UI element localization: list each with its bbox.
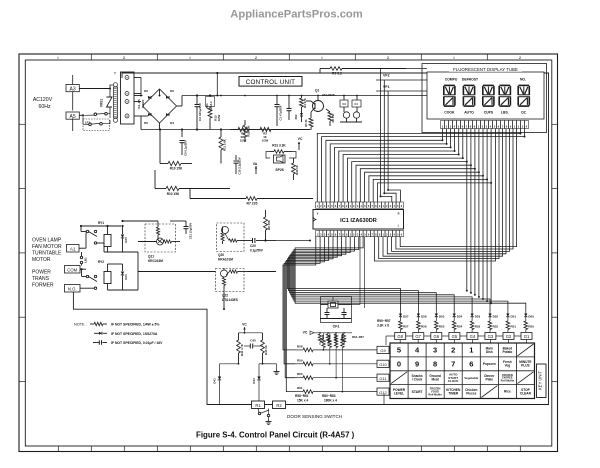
bridge rectifier D2~D5 xyxy=(143,89,177,123)
key matrix connectors G8-G1 xyxy=(395,333,406,340)
svg-text:G9: G9 xyxy=(380,348,386,353)
svg-text:I: I xyxy=(322,56,323,60)
svg-text:3: 3 xyxy=(433,346,437,355)
connector COM xyxy=(65,266,81,274)
resistor R7 220 xyxy=(190,198,246,200)
svg-text:Q22: Q22 xyxy=(222,294,228,298)
svg-text:R82: R82 xyxy=(335,334,338,339)
svg-text:2SA933S: 2SA933S xyxy=(322,93,335,97)
svg-text:I: I xyxy=(454,56,455,60)
zener ZD1 HZ16-1 xyxy=(206,97,215,107)
svg-text:R2: R2 xyxy=(276,403,282,408)
wire bottom rail xyxy=(207,404,252,406)
wire G columns to matrix xyxy=(399,340,401,344)
svg-text:AC120V: AC120V xyxy=(33,97,53,103)
svg-text:IF NOT SPECIFIED, 0.01μF / 16: IF NOT SPECIFIED, 0.01μF / 16V xyxy=(111,341,163,345)
fluorescent display tube box xyxy=(427,72,544,119)
resistor R4 47K xyxy=(301,96,303,99)
svg-text:C1 47μ/25V: C1 47μ/25V xyxy=(279,105,283,120)
wire relay to control xyxy=(138,271,216,273)
resistor R52 xyxy=(489,317,491,321)
svg-text:I: I xyxy=(58,56,59,60)
capacitor C2 330u/35V xyxy=(196,96,198,105)
wire bundle IC top to display far columns xyxy=(317,134,520,203)
wire q21 collector xyxy=(157,221,159,224)
diode D53 xyxy=(471,311,473,314)
svg-text:1/2W: 1/2W xyxy=(240,139,247,143)
wire bundle IC bottom to display long columns xyxy=(374,129,495,262)
svg-text:0: 0 xyxy=(397,359,401,368)
connector R1 xyxy=(252,401,265,409)
svg-text:5: 5 xyxy=(397,346,401,355)
wire A3 to transformer xyxy=(79,88,110,90)
resistor R53 xyxy=(471,317,473,321)
wire vcc rail xyxy=(134,95,143,97)
svg-text:Q20: Q20 xyxy=(218,253,224,257)
svg-text:D3: D3 xyxy=(170,89,174,93)
IC1 bottom pin strip xyxy=(316,231,320,237)
svg-text:R30 1K: R30 1K xyxy=(295,165,299,174)
svg-text:DEFROST: DEFROST xyxy=(462,78,479,82)
svg-text:RY1: RY1 xyxy=(98,221,104,225)
resistors R80-R83 vertical xyxy=(323,333,325,339)
relay RY1 coil xyxy=(104,235,111,247)
svg-text:R54: R54 xyxy=(457,325,463,329)
svg-text:G6: G6 xyxy=(434,334,440,339)
svg-text:60Hz: 60Hz xyxy=(38,104,51,110)
svg-text:FORMER: FORMER xyxy=(32,283,54,289)
svg-text:RY2: RY2 xyxy=(98,260,104,264)
transistor Q1 2SA933S xyxy=(313,101,324,112)
svg-text:D55: D55 xyxy=(439,315,445,319)
wire bundle IC bottom left staircase xyxy=(283,237,316,350)
display pin strip xyxy=(441,121,445,129)
diode D50 xyxy=(525,311,527,314)
key matrix grid xyxy=(390,343,535,399)
svg-text:2: 2 xyxy=(123,56,125,60)
svg-text:D4: D4 xyxy=(170,121,174,125)
resistor R9 5.2 top xyxy=(320,68,330,70)
resistor R2 680 1/2W xyxy=(230,129,238,131)
svg-text:R61: R61 xyxy=(297,386,303,390)
svg-text:11B2F: 11B2F xyxy=(141,99,145,108)
svg-text:I: I xyxy=(190,56,191,60)
svg-text:R5 1K: R5 1K xyxy=(304,119,308,126)
svg-text:D54: D54 xyxy=(457,315,463,319)
diode D51 xyxy=(507,311,509,314)
svg-text:R60: R60 xyxy=(297,372,303,376)
svg-text:8: 8 xyxy=(433,359,437,368)
svg-text:Q21: Q21 xyxy=(148,255,154,259)
svg-text:1: 1 xyxy=(469,346,473,355)
svg-text:TRANS: TRANS xyxy=(32,276,50,282)
svg-text:D40: D40 xyxy=(252,378,256,384)
capacitor C9 0.1u/50V xyxy=(181,130,183,138)
svg-text:ZD2: ZD2 xyxy=(294,114,298,119)
resistor R12 15K xyxy=(244,120,246,125)
capacitor C21 15u/35V xyxy=(185,221,187,226)
svg-text:IF NOT SPECIFIED, 1/4W ± 5%: IF NOT SPECIFIED, 1/4W ± 5% xyxy=(111,323,159,327)
wire psu mid xyxy=(159,130,161,164)
svg-text:C3: C3 xyxy=(342,102,346,106)
svg-text:VRS1: VRS1 xyxy=(100,99,104,108)
ground mid xyxy=(276,364,278,369)
svg-text:VA: VA xyxy=(253,162,258,166)
svg-text:R57: R57 xyxy=(403,325,409,329)
svg-text:/ Clock: / Clock xyxy=(412,378,423,382)
svg-text:1/2W: 1/2W xyxy=(217,114,221,121)
svg-text:D20: D20 xyxy=(124,237,128,243)
svg-text:D50: D50 xyxy=(528,315,534,319)
connector N.O. xyxy=(65,285,81,293)
diode D21 xyxy=(122,264,124,271)
svg-text:R59: R59 xyxy=(297,358,303,362)
svg-text:NOTE :: NOTE : xyxy=(74,323,87,327)
wire vf lines to display xyxy=(376,79,427,81)
sheet zone tick marks top xyxy=(90,54,92,60)
svg-text:Meat: Meat xyxy=(431,378,439,382)
svg-text:Plate: Plate xyxy=(485,378,493,382)
resistor R56 xyxy=(417,317,419,321)
relay RY2 coil xyxy=(104,272,111,284)
svg-text:A3: A3 xyxy=(70,86,76,92)
svg-text:C20: C20 xyxy=(250,244,256,248)
svg-text:C2 330μ/35V: C2 330μ/35V xyxy=(198,103,202,121)
capacitor C10 2.2u/50V xyxy=(235,155,237,160)
svg-text:OVEN LAMP: OVEN LAMP xyxy=(32,238,62,244)
diode D56 xyxy=(417,311,419,314)
wire r9 line to display xyxy=(342,68,427,70)
svg-text:Roll-Muffin: Roll-Muffin xyxy=(428,392,442,396)
svg-text:G1: G1 xyxy=(524,334,530,339)
svg-text:TIMER: TIMER xyxy=(448,392,459,396)
svg-text:COOK: COOK xyxy=(444,111,455,115)
resonator CF1 xyxy=(321,297,352,323)
svg-text:2: 2 xyxy=(519,56,521,60)
svg-text:0.1μ/50V: 0.1μ/50V xyxy=(250,249,264,253)
svg-text:VC: VC xyxy=(303,331,308,335)
svg-text:C40: C40 xyxy=(250,339,256,343)
svg-text:R80~R83: R80~R83 xyxy=(322,394,336,398)
sheet zone tick marks bottom xyxy=(57,446,59,452)
ground door switch xyxy=(268,419,270,422)
svg-text:2: 2 xyxy=(255,56,257,60)
oscillator cluster X1 xyxy=(343,96,345,101)
wire bundle IC top to display staircase xyxy=(326,140,443,202)
diode D20 xyxy=(122,226,124,234)
zener ZD2 RD4.3 xyxy=(300,113,303,116)
svg-text:D5: D5 xyxy=(144,121,148,125)
svg-text:KRA101M: KRA101M xyxy=(218,258,233,262)
svg-text:G5: G5 xyxy=(452,334,458,339)
svg-text:VC: VC xyxy=(298,137,303,141)
diode D55 xyxy=(435,311,437,314)
svg-text:R9 5.2: R9 5.2 xyxy=(332,72,342,76)
svg-text:Rice: Rice xyxy=(504,390,511,394)
svg-text:R1: R1 xyxy=(255,403,261,408)
diode D54 xyxy=(453,311,455,314)
diode D57 xyxy=(400,311,402,314)
svg-text:R6 15K: R6 15K xyxy=(331,113,335,122)
svg-text:R58~R61: R58~R61 xyxy=(295,394,309,398)
svg-text:Dish: Dish xyxy=(486,350,493,354)
svg-text:R7 220: R7 220 xyxy=(247,202,258,206)
wire q22 emitter to rail xyxy=(248,271,276,273)
svg-text:Vegetable: Vegetable xyxy=(464,376,478,380)
svg-text:NO.: NO. xyxy=(520,78,526,82)
capacitor C1 47u/25V xyxy=(276,96,278,105)
transistor Q22 DTA143ES xyxy=(216,269,245,292)
svg-text:R50~R57: R50~R57 xyxy=(377,319,391,323)
key blank diag r4 xyxy=(481,386,497,398)
resistor R50 xyxy=(525,317,527,321)
svg-text:D2: D2 xyxy=(144,89,148,93)
connector A1 xyxy=(67,245,80,253)
svg-text:R41 4.7K: R41 4.7K xyxy=(240,344,244,356)
resistor R40 1K xyxy=(262,333,264,340)
svg-text:OZ.: OZ. xyxy=(521,111,527,115)
wire A5 to line filter xyxy=(79,114,83,116)
resistor R11 5.6K xyxy=(220,130,222,138)
svg-text:R56: R56 xyxy=(421,325,427,329)
svg-text:D51: D51 xyxy=(511,315,517,319)
key matrix connectors G9-G12 xyxy=(377,346,389,353)
wire q20 output to ic xyxy=(276,240,310,242)
connector R2 xyxy=(273,401,286,409)
svg-text:IF NOT SPECIFIED, 1SS270A: IF NOT SPECIFIED, 1SS270A xyxy=(111,332,158,336)
svg-text:A1: A1 xyxy=(70,247,76,252)
transformer primary winding xyxy=(114,87,118,118)
resistor R54 xyxy=(453,317,455,321)
line filter L/N contacts xyxy=(94,113,97,116)
svg-text:G2: G2 xyxy=(506,334,512,339)
sheet zone tick marks left xyxy=(19,123,25,125)
svg-text:D56: D56 xyxy=(421,315,427,319)
svg-text:Roll-Muffin: Roll-Muffin xyxy=(501,379,515,383)
svg-text:G3: G3 xyxy=(488,334,494,339)
svg-text:Potato: Potato xyxy=(502,350,512,354)
resistor R6 xyxy=(326,109,330,112)
svg-text:POWER: POWER xyxy=(32,270,51,276)
svg-text:AppliancePartsPros.com: AppliancePartsPros.com xyxy=(230,9,362,21)
resistor R57 xyxy=(400,317,402,321)
svg-text:FAN MOTOR: FAN MOTOR xyxy=(32,244,62,250)
wire A1 COM NO xyxy=(79,247,86,249)
svg-text:R51: R51 xyxy=(511,325,517,329)
wire cf1 to ic xyxy=(332,297,334,302)
resistor R8 15K xyxy=(265,210,267,217)
IC1 top pin strip xyxy=(316,202,320,208)
svg-text:KEY UNIT: KEY UNIT xyxy=(538,370,543,390)
svg-text:G10: G10 xyxy=(379,362,387,367)
svg-text:VC: VC xyxy=(242,323,247,327)
relay RY1 contact xyxy=(85,233,87,249)
wire bridge bottom rail xyxy=(159,123,161,130)
svg-text:3.3K x 8: 3.3K x 8 xyxy=(377,324,389,328)
resistors R64-R67 xyxy=(319,333,321,334)
svg-text:R53: R53 xyxy=(475,325,481,329)
svg-text:15K x 4: 15K x 4 xyxy=(297,399,308,403)
svg-text:D41: D41 xyxy=(213,378,217,384)
resistor R30 1K xyxy=(293,158,295,163)
svg-text:G12: G12 xyxy=(379,390,387,395)
wire display columns extended to diode feeds xyxy=(466,162,468,291)
svg-text:PLUS: PLUS xyxy=(521,364,530,368)
svg-text:G7: G7 xyxy=(415,334,421,339)
svg-text:C21 15μ/35V: C21 15μ/35V xyxy=(189,223,193,240)
svg-text:R10 15K: R10 15K xyxy=(167,192,180,196)
svg-text:R52: R52 xyxy=(493,325,499,329)
resistor R55 xyxy=(435,317,437,321)
svg-text:R11 5.6K: R11 5.6K xyxy=(223,139,227,151)
svg-text:G8: G8 xyxy=(397,334,403,339)
net VF vertical feeds xyxy=(380,69,382,197)
svg-text:D53: D53 xyxy=(475,315,481,319)
svg-text:Popcorn: Popcorn xyxy=(483,362,496,366)
svg-text:D21: D21 xyxy=(124,274,128,280)
svg-text:IC1 IZA630DR: IC1 IZA630DR xyxy=(340,218,377,224)
wire bridge output top xyxy=(159,89,161,96)
svg-text:G11: G11 xyxy=(379,376,387,381)
svg-text:CUPS: CUPS xyxy=(484,111,494,115)
transistor Q20 KRA101M xyxy=(217,223,245,252)
key unit label xyxy=(537,364,547,398)
svg-text:D57: D57 xyxy=(403,315,409,319)
svg-text:R40 1K: R40 1K xyxy=(264,345,268,354)
display digits row 2 xyxy=(444,105,455,107)
svg-text:COM: COM xyxy=(67,268,77,273)
varistor VRS1 xyxy=(109,89,111,98)
IC1 IZA630DR body xyxy=(313,210,404,230)
sheet inner border frame xyxy=(25,60,552,446)
resistor R51 xyxy=(507,317,509,321)
diode D41 xyxy=(219,364,221,377)
svg-text:R64~R67: R64~R67 xyxy=(352,335,364,339)
svg-text:1/2W: 1/2W xyxy=(262,139,269,143)
resistor R14 15K horizontal xyxy=(155,188,166,190)
diode D40 xyxy=(258,364,260,377)
svg-text:LB1: LB1 xyxy=(84,257,88,263)
resistor R10 15K xyxy=(160,163,168,165)
resistor R3 1K 1/2W xyxy=(260,127,271,131)
svg-text:C4: C4 xyxy=(354,102,358,106)
transistor Q21 KRC243M xyxy=(145,224,176,252)
svg-text:START: START xyxy=(412,390,424,394)
svg-text:R58: R58 xyxy=(297,344,303,348)
svg-text:6: 6 xyxy=(469,359,473,368)
svg-text:180K x 4: 180K x 4 xyxy=(324,399,337,403)
resistor R5 1K xyxy=(309,118,313,127)
connector A5 xyxy=(66,112,79,119)
svg-text:SP26: SP26 xyxy=(275,168,283,172)
svg-text:Pieces: Pieces xyxy=(466,392,476,396)
transformer T1 xyxy=(121,72,135,124)
resistor R13 1/2W xyxy=(209,107,211,109)
svg-text:R50: R50 xyxy=(528,325,534,329)
key blank diag r1 xyxy=(517,344,533,356)
svg-text:C10 2.2μ/25V: C10 2.2μ/25V xyxy=(238,157,242,174)
svg-text:LEVEL: LEVEL xyxy=(394,392,404,396)
display assembly outer box xyxy=(422,64,547,133)
connector A3 xyxy=(66,85,79,92)
buzzer SP26 xyxy=(274,155,286,163)
svg-text:LF1: LF1 xyxy=(85,121,91,125)
svg-text:Q1: Q1 xyxy=(315,89,319,93)
node dots vcc rail xyxy=(196,95,198,97)
diode D52 xyxy=(489,311,491,314)
svg-text:CLOCK: CLOCK xyxy=(448,379,459,383)
control unit boundary box xyxy=(73,73,548,405)
svg-text:Figure S-4. Control Panel Circ: Figure S-4. Control Panel Circuit (R-4A5… xyxy=(196,430,355,439)
svg-text:R10 15K: R10 15K xyxy=(170,167,183,171)
door switch xyxy=(258,412,260,414)
relay RY2 contact xyxy=(86,275,88,277)
svg-text:TURNTABLE: TURNTABLE xyxy=(32,251,62,257)
svg-text:R80: R80 xyxy=(322,334,325,339)
key blank diag r3c8 xyxy=(517,372,533,384)
wire AC feed vertical xyxy=(72,75,74,85)
svg-text:R55: R55 xyxy=(439,325,445,329)
sheet outer border frame xyxy=(19,54,558,452)
svg-text:R31 3.3K: R31 3.3K xyxy=(272,144,286,148)
svg-text:N.O.: N.O. xyxy=(68,287,77,292)
svg-text:C9 0.1μ/50V: C9 0.1μ/50V xyxy=(184,140,188,156)
svg-text:R83: R83 xyxy=(341,334,344,339)
svg-text:R8 15K: R8 15K xyxy=(267,220,271,229)
svg-text:R81: R81 xyxy=(328,334,331,339)
svg-text:2: 2 xyxy=(387,56,389,60)
svg-text:CONTROL UNIT: CONTROL UNIT xyxy=(246,79,295,86)
svg-text:R4 47K: R4 47K xyxy=(303,98,307,107)
svg-text:CF1: CF1 xyxy=(333,325,340,329)
svg-text:7: 7 xyxy=(451,359,455,368)
svg-text:R: R xyxy=(398,212,400,216)
display digits row 1 xyxy=(444,84,455,86)
svg-text:FLUORESCENT DISPLAY TUBE: FLUORESCENT DISPLAY TUBE xyxy=(453,67,518,72)
svg-text:G4: G4 xyxy=(470,334,476,339)
svg-text:VF2: VF2 xyxy=(383,74,390,78)
capacitor C5 xyxy=(288,96,290,109)
svg-text:COMPU: COMPU xyxy=(445,78,458,82)
svg-text:AUTO: AUTO xyxy=(464,111,474,115)
svg-text:LBS.: LBS. xyxy=(501,111,509,115)
control unit label box xyxy=(239,77,302,87)
svg-text:2: 2 xyxy=(451,346,455,355)
svg-text:V: V xyxy=(317,212,319,216)
capacitor C20 0.1u/50V xyxy=(250,240,253,242)
svg-text:DOOR SENSING SWITCH: DOOR SENSING SWITCH xyxy=(287,414,342,419)
svg-text:D52: D52 xyxy=(493,315,499,319)
svg-text:CLEAR: CLEAR xyxy=(520,392,532,396)
svg-text:MOTOR: MOTOR xyxy=(32,257,51,263)
resistor R41 4.7K xyxy=(238,333,240,340)
svg-text:Veg: Veg xyxy=(505,364,511,368)
svg-text:9: 9 xyxy=(415,359,419,368)
svg-text:KRC243M: KRC243M xyxy=(148,259,163,263)
key blank diag r3 xyxy=(391,372,407,384)
